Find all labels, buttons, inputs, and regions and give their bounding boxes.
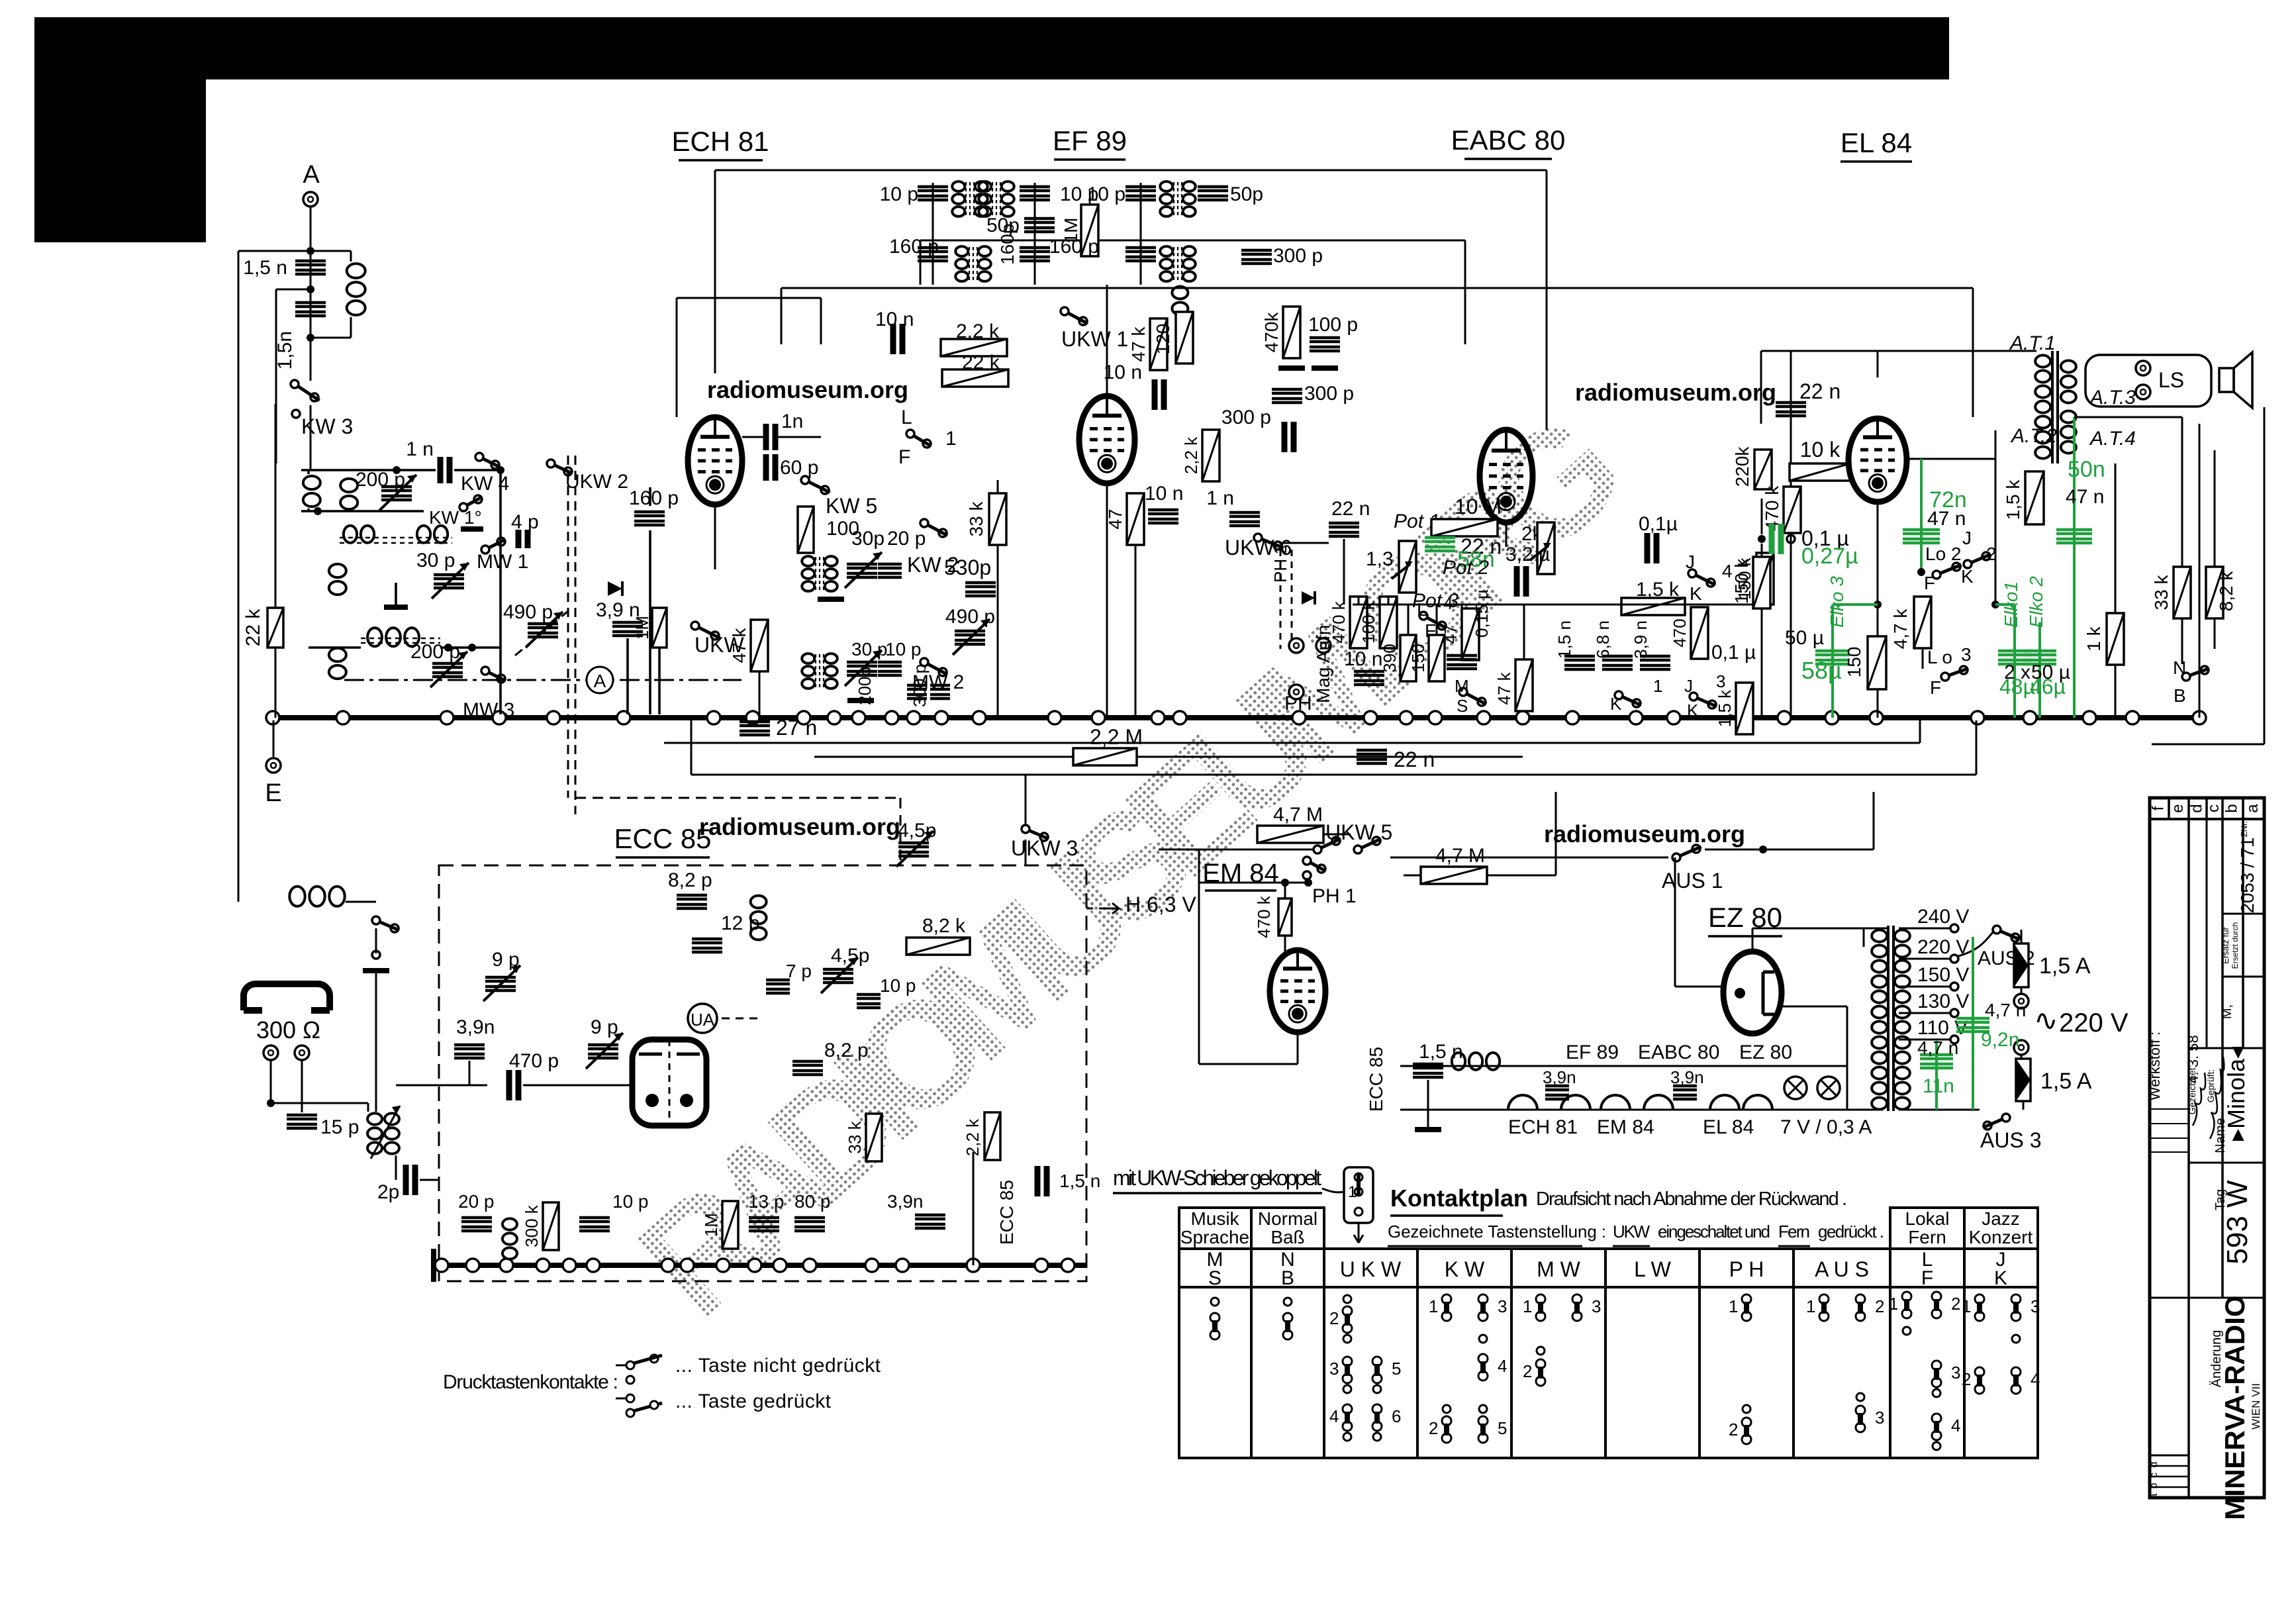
- svg-text:390: 390: [1380, 644, 1400, 672]
- wire KW4 column: [499, 470, 502, 714]
- svg-text:2: 2: [1875, 1296, 1884, 1316]
- resistor 47 eabc: [1462, 608, 1479, 660]
- wire prim top: [1864, 928, 1883, 930]
- svg-text:L o: L o: [1927, 647, 1952, 667]
- wire 47 down: [1135, 545, 1137, 718]
- svg-text:F: F: [898, 446, 910, 468]
- svg-text:1,5 k: 1,5 k: [1636, 579, 1680, 601]
- wire dashed PH2 b: [1291, 550, 1293, 649]
- title block bottom letter cells: [2150, 1455, 2189, 1457]
- svg-text:3: 3: [1592, 1296, 1601, 1316]
- svg-text:F: F: [1921, 1267, 1933, 1289]
- capacitor 0,15u: [1447, 655, 1477, 669]
- svg-text:4,5p: 4,5p: [831, 945, 869, 967]
- contact PH 1: [1742, 1294, 1751, 1304]
- ECC85 dashed box: [439, 865, 1086, 1281]
- resistor 8,2k ecc: [906, 938, 970, 955]
- junction bus: [2023, 711, 2036, 724]
- contact UKW 3: [1343, 1357, 1352, 1366]
- svg-text:ECH 81: ECH 81: [1508, 1116, 1578, 1138]
- wire ez80 top: [1752, 928, 1754, 951]
- resistor 120: [1176, 312, 1193, 363]
- svg-text:MW 3: MW 3: [463, 699, 514, 721]
- wire: [309, 646, 361, 649]
- svg-text:J: J: [1686, 552, 1695, 572]
- svg-text:radiomuseum.org: radiomuseum.org: [707, 376, 908, 403]
- svg-text:10 p: 10 p: [880, 975, 916, 996]
- wire to tube: [523, 1085, 632, 1087]
- svg-text:Draufsicht nach Abnahme der: Draufsicht nach Abnahme der Rückwand .: [1536, 1188, 1847, 1210]
- svg-text:2,2 k: 2,2 k: [963, 1118, 982, 1156]
- speaker symbol: [2219, 368, 2234, 392]
- wire 33k down: [2181, 618, 2183, 664]
- svg-text:d: d: [2148, 1462, 2160, 1468]
- contact MS: [1210, 1313, 1220, 1322]
- resistor 150: [1868, 636, 1886, 689]
- svg-text:490 p: 490 p: [945, 606, 995, 628]
- svg-text:A.T.4: A.T.4: [2089, 428, 2136, 450]
- resistor 1,5k b: [1736, 683, 1753, 734]
- svg-text:EF 89: EF 89: [1566, 1042, 1619, 1063]
- svg-text:300 k: 300 k: [522, 1204, 542, 1247]
- svg-text:K: K: [1687, 701, 1699, 720]
- wire 33k up: [997, 480, 999, 493]
- speaker LS box: [2085, 355, 2211, 407]
- svg-text:240 V: 240 V: [1917, 906, 1969, 928]
- capacitor 20p: [878, 564, 902, 577]
- svg-text:AUS 3: AUS 3: [1980, 1128, 2041, 1152]
- wire EF89 cathode down: [1106, 483, 1108, 718]
- switch J4K: [1688, 569, 1696, 577]
- wire top rail 3: [781, 287, 1973, 289]
- svg-text:S: S: [1208, 1267, 1221, 1289]
- junction bus: [1566, 711, 1579, 724]
- svg-text:b: b: [2148, 1482, 2160, 1488]
- capacitor 3,9n ecc: [454, 1045, 485, 1058]
- svg-text:300 p: 300 p: [1304, 383, 1354, 405]
- wire ez80 up: [1674, 857, 1676, 987]
- wire tap 130 V: [1899, 1012, 1950, 1014]
- line tb v2: [2221, 819, 2224, 1298]
- svg-text:4,5p: 4,5p: [898, 820, 936, 842]
- svg-text:B: B: [2174, 685, 2186, 706]
- junction bus: [2126, 711, 2139, 724]
- svg-text:2: 2: [1329, 1308, 1339, 1328]
- capacitor 1n mixer: [440, 457, 450, 483]
- svg-text:160 p: 160 p: [629, 487, 679, 509]
- capacitor 20p: [461, 1218, 492, 1231]
- svg-text:radiomuseum.org: radiomuseum.org: [1544, 820, 1745, 848]
- junction bus: [440, 711, 454, 724]
- resistor 1,5k: [1621, 598, 1685, 615]
- svg-text:1,5 k: 1,5 k: [2003, 479, 2023, 520]
- svg-text:K: K: [1690, 583, 1702, 604]
- wire ez80 right: [1782, 1006, 1847, 1008]
- svg-text:KW 5: KW 5: [826, 494, 877, 518]
- inductor MW coil b: [417, 526, 430, 543]
- svg-text:2,2 M: 2,2 M: [1090, 725, 1143, 749]
- svg-text:20 p: 20 p: [887, 528, 926, 550]
- capacitor 15p: [287, 1115, 317, 1128]
- wire ez80 right down: [1846, 1006, 1848, 1110]
- node A circle: [587, 667, 613, 693]
- junction ecc bus: [803, 1259, 816, 1272]
- svg-text:2053 / 71: 2053 / 71: [2237, 838, 2258, 914]
- contact: [1343, 1433, 1351, 1441]
- wire EABC80 top drop: [1546, 170, 1548, 430]
- capacitor 1,5n heater: [1413, 1064, 1443, 1077]
- svg-text:B: B: [1281, 1267, 1294, 1289]
- svg-text:1: 1: [1806, 1296, 1815, 1316]
- svg-text:2p: 2p: [377, 1181, 399, 1203]
- wire 47k down: [759, 671, 761, 718]
- svg-text:5: 5: [1392, 1359, 1401, 1379]
- wire ant top: [238, 250, 351, 252]
- transformer A.T. output core: [2051, 351, 2054, 463]
- wire: [310, 318, 312, 338]
- contact: [1343, 1335, 1351, 1343]
- wire mixer bottom: [301, 510, 424, 512]
- svg-text:130 V: 130 V: [1917, 991, 1969, 1012]
- junction bus: [828, 711, 841, 724]
- svg-text:U K W: U K W: [1340, 1257, 1402, 1281]
- junction ecc bus: [865, 1259, 879, 1272]
- svg-text:4. 3. 58: 4. 3. 58: [2185, 1035, 2201, 1083]
- resistor 1M ecc: [722, 1201, 738, 1249]
- junction ecc bus: [1061, 1259, 1075, 1272]
- heater EZ80: [1743, 1095, 1772, 1110]
- capacitor 10p ecc: [857, 994, 881, 1008]
- svg-text:47 n: 47 n: [2066, 486, 2104, 508]
- svg-text:ECC 85: ECC 85: [614, 823, 711, 854]
- wire rail3 drop R: [1972, 288, 1974, 417]
- wire IF1 vert: [932, 183, 934, 285]
- svg-text:1: 1: [1962, 1296, 1971, 1316]
- svg-text:Pot 2: Pot 2: [1443, 557, 1489, 579]
- wire: [350, 317, 352, 338]
- svg-text:ECH 81: ECH 81: [671, 126, 769, 157]
- switch MW 2: [920, 658, 928, 666]
- svg-text:Elko 3: Elko 3: [1827, 576, 1847, 628]
- contact AUS 1: [1819, 1294, 1829, 1304]
- wire dashed core b: [361, 638, 440, 640]
- svg-text:47: 47: [1105, 509, 1125, 529]
- svg-text:10 n: 10 n: [1344, 648, 1382, 670]
- wire Elko3 down: [1831, 605, 1834, 718]
- junction ecc bus: [748, 1259, 761, 1272]
- title block sig rows: [2150, 1108, 2189, 1110]
- svg-text:10 M: 10 M: [1455, 495, 1502, 518]
- wire: [395, 583, 397, 607]
- svg-text:A.T.2: A.T.2: [2010, 425, 2057, 447]
- wire dashed diagonal: [515, 608, 572, 655]
- resistor 22k b: [942, 369, 1008, 387]
- transformer power core: [1887, 926, 1889, 1111]
- resistor 150 eabc: [1429, 635, 1445, 681]
- switch KW 1: [459, 503, 467, 511]
- capacitor 3,9n eabc: [1640, 656, 1670, 669]
- inductor heater choke: [1452, 1053, 1465, 1070]
- svg-text:33 k: 33 k: [966, 501, 986, 537]
- svg-text:S: S: [1457, 696, 1468, 716]
- svg-text:Elko 2: Elko 2: [2026, 576, 2046, 628]
- svg-text:mit UKW-Schieber gekoppelt: mit UKW-Schieber gekoppelt: [1113, 1166, 1321, 1190]
- svg-text:30 p: 30 p: [416, 550, 455, 571]
- svg-text:ECC 85: ECC 85: [1366, 1047, 1386, 1112]
- capacitor 22n eabc: [1329, 523, 1359, 536]
- wire ukw3 b: [1025, 840, 1027, 865]
- capacitor 10p osc: [878, 662, 902, 675]
- svg-text:3: 3: [1329, 1359, 1339, 1379]
- svg-text:L: L: [1417, 599, 1427, 620]
- wire 2,2k down: [973, 1152, 975, 1265]
- svg-text:47 k: 47 k: [729, 628, 749, 663]
- wire A.T.1 drop: [1760, 351, 1762, 424]
- capacitor 470p: [509, 1070, 518, 1100]
- capacitor 0,1u top: [1647, 533, 1656, 563]
- wire: [307, 509, 310, 511]
- svg-text:A: A: [303, 161, 320, 189]
- junction bus: [617, 711, 630, 724]
- wire: [1284, 883, 1286, 898]
- tap 110 V: [1950, 1036, 1958, 1043]
- contact JK 3: [2011, 1294, 2021, 1304]
- line tb v1: [2187, 819, 2190, 1498]
- switch UKW 5: [1314, 846, 1321, 853]
- svg-text:300 p: 300 p: [1221, 407, 1271, 428]
- junction ecc bus: [587, 1259, 600, 1272]
- junction bus: [1292, 711, 1306, 724]
- svg-text:0,1µ: 0,1µ: [1639, 513, 1678, 535]
- svg-text:300 p: 300 p: [1273, 245, 1323, 267]
- wire ECH81 anode rail: [714, 170, 716, 373]
- capacitor 160p IF1b: [1020, 248, 1050, 261]
- svg-text:4,7 n: 4,7 n: [1917, 1038, 1958, 1058]
- junction ecc bus: [466, 1259, 479, 1272]
- svg-text:MW 1: MW 1: [477, 551, 528, 573]
- capacitor 1n grid: [766, 424, 775, 450]
- capacitor 50n47n: [2056, 530, 2092, 543]
- svg-text:gedrückt .: gedrückt .: [1818, 1222, 1884, 1241]
- switch UKW 6: [1254, 534, 1262, 542]
- svg-text:M W: M W: [1537, 1257, 1581, 1281]
- wire ukw6 row: [1279, 542, 1329, 544]
- wire dashed box drop: [900, 798, 902, 865]
- svg-text:4,7 M: 4,7 M: [1435, 845, 1485, 867]
- wire: [1404, 875, 1421, 877]
- line tb h1: [2223, 913, 2264, 915]
- wire left tall vertical: [238, 251, 240, 902]
- junction coil bottom: [314, 507, 322, 515]
- wire 1M down: [658, 648, 661, 714]
- wire EL84 grid right: [1907, 458, 1995, 460]
- svg-text:1: 1: [945, 428, 957, 450]
- contact: [1343, 1385, 1351, 1393]
- svg-text:4,7 M: 4,7 M: [1273, 804, 1323, 826]
- wire 4,7k down: [1922, 648, 1924, 669]
- svg-text:UKW 3: UKW 3: [1011, 836, 1078, 860]
- wire to coil: [311, 337, 351, 339]
- svg-text:P H: P H: [1729, 1257, 1764, 1281]
- resistor 100k: [1380, 597, 1397, 648]
- wire green mains b: [1935, 1041, 1938, 1110]
- resistor 220k: [1754, 450, 1772, 489]
- svg-text:200 p: 200 p: [356, 469, 405, 491]
- wire em84 left: [1198, 849, 1200, 1064]
- ground KW1: [461, 526, 483, 532]
- junction bus: [907, 711, 920, 724]
- terminal LS+: [2136, 361, 2150, 375]
- svg-text:UKW: UKW: [1613, 1222, 1650, 1241]
- transformer antenna coupling: [367, 1113, 382, 1124]
- wire 33k down: [997, 545, 999, 718]
- capacitor 50p IF: [1024, 218, 1055, 232]
- tube ECH81: [688, 417, 742, 505]
- svg-text:3,9n: 3,9n: [456, 1016, 495, 1038]
- capacitor 4p: [518, 530, 528, 548]
- wire rail2 left drop: [691, 720, 693, 775]
- potentiometer 1,3M: [1399, 541, 1416, 593]
- switch UKW 3: [1022, 825, 1029, 833]
- resistor 150k el: [1753, 557, 1770, 608]
- svg-text:2,2 k: 2,2 k: [1181, 436, 1201, 474]
- svg-text:3: 3: [2031, 1296, 2040, 1316]
- wire prim bottom: [1847, 1109, 1883, 1111]
- resistor 2,2k ef: [1202, 430, 1220, 481]
- contact KW 1: [1442, 1294, 1451, 1304]
- wire: [1487, 875, 1556, 877]
- wire: [1199, 1063, 1298, 1065]
- svg-text:22 k: 22 k: [962, 352, 1000, 373]
- svg-text:1 n: 1 n: [1206, 487, 1234, 509]
- switch Lo2 F: [1933, 571, 1940, 579]
- wire: [367, 1103, 369, 1112]
- wire left drop 2: [275, 289, 277, 463]
- fuse 1,5A a: [2014, 944, 2029, 987]
- contact: [1373, 1385, 1381, 1393]
- junction antenna: [307, 247, 314, 255]
- svg-text:1: 1: [1523, 1296, 1532, 1316]
- ground 100p: [1312, 365, 1338, 371]
- wire ECC85 bus: [439, 1263, 1086, 1268]
- antenna 300ohm symbol: [244, 984, 330, 1010]
- junction: [468, 644, 476, 652]
- line tb h2: [2223, 976, 2264, 978]
- capacitor 160p IF2: [1125, 248, 1156, 261]
- svg-text:1: 1: [1889, 1294, 1898, 1314]
- capacitor 3,9n heater b: [1673, 1086, 1697, 1099]
- switch L4F: [1419, 612, 1427, 620]
- capacitor 300p small: [930, 685, 950, 699]
- svg-text:100 k: 100 k: [1359, 601, 1378, 644]
- black top bar: [34, 17, 1949, 79]
- junction ecc bus: [661, 1259, 675, 1272]
- switch MW 1: [481, 546, 489, 554]
- capacitor 10p IF1: [918, 187, 948, 200]
- junction ecc bus: [967, 1259, 980, 1272]
- wire stub: [276, 289, 311, 291]
- svg-text:50p: 50p: [986, 215, 1020, 236]
- svg-text:220 V: 220 V: [2059, 1008, 2129, 1038]
- contact NB: [1283, 1313, 1292, 1322]
- terminal LS-: [2136, 385, 2150, 399]
- svg-text:▸Minola◂: ▸Minola◂: [2223, 1047, 2250, 1141]
- resistor 2,2k: [941, 339, 1007, 356]
- svg-text:11n: 11n: [1923, 1075, 1954, 1097]
- junction bus: [1516, 711, 1529, 724]
- svg-text:KW 4: KW 4: [461, 473, 509, 495]
- resistor 470k ef: [1283, 307, 1300, 358]
- svg-text:60 p: 60 p: [780, 457, 818, 479]
- contact: [1537, 1347, 1545, 1355]
- svg-text:a: a: [2244, 804, 2262, 813]
- wire antenna down: [310, 207, 312, 381]
- svg-text:Jazz: Jazz: [1982, 1208, 2020, 1229]
- svg-text:f: f: [2150, 806, 2168, 810]
- junction bus: [797, 711, 810, 724]
- svg-text:47 k: 47 k: [1494, 671, 1514, 704]
- svg-text:10 n: 10 n: [1104, 362, 1142, 383]
- svg-text:UA: UA: [691, 1010, 715, 1030]
- wire rail2 drop R: [1464, 240, 1466, 344]
- wire 50n green: [2073, 417, 2076, 718]
- capacitor 3,9n ecc2: [915, 1215, 945, 1228]
- wire em84 bottom: [1297, 1032, 1299, 1064]
- svg-text:2: 2: [1429, 1418, 1438, 1438]
- wire aus1 up: [1873, 792, 1875, 849]
- trimmer 4,5p a: [898, 843, 929, 856]
- junction cathode: [1874, 601, 1882, 608]
- terminal 300 b: [295, 1045, 309, 1060]
- svg-text:c: c: [2205, 804, 2223, 812]
- wire dashed UKW box L: [567, 456, 569, 798]
- junction bus: [1151, 711, 1165, 724]
- contact KW 4: [1478, 1354, 1488, 1363]
- diode on dashed line: [608, 581, 622, 596]
- line tb h4: [2189, 1162, 2264, 1164]
- junction bus: [935, 711, 948, 724]
- svg-text:8,2 k: 8,2 k: [922, 915, 966, 937]
- wire rail3 drop L: [781, 288, 783, 344]
- junction ecc bus: [681, 1259, 694, 1272]
- wire tap 240 V: [1899, 928, 1950, 930]
- table header boxes: [1179, 1208, 1251, 1249]
- IF transformer 2 lower coils: [1160, 246, 1172, 256]
- wire: [1436, 605, 1438, 635]
- wire rail1 up: [1919, 720, 1921, 743]
- wire: [270, 1060, 272, 1103]
- capacitor 1n ef: [1229, 512, 1260, 526]
- capacitor 22n bottom: [1357, 750, 1387, 763]
- svg-text:L: L: [901, 407, 912, 428]
- wire 8,2k up: [2214, 450, 2216, 567]
- wire UA dashed: [722, 1018, 761, 1020]
- contact KW3: [292, 410, 300, 418]
- tube EABC80: [1480, 430, 1533, 522]
- contact: [1856, 1393, 1864, 1401]
- wire: [1523, 605, 1525, 659]
- ground mixer: [384, 605, 408, 610]
- svg-text:Drucktastenkontakte :: Drucktastenkontakte :: [443, 1371, 618, 1393]
- wire 72n green: [1920, 459, 1923, 572]
- wire Elko1 down: [2013, 605, 2016, 718]
- capacitor 1,5n b: [295, 303, 326, 316]
- wire pointer to plunger: [1322, 1188, 1344, 1192]
- wire Pot3 row: [1353, 604, 1761, 606]
- wire Elko2 down: [2038, 622, 2041, 718]
- svg-text:Gezeichnete Tastenstellung :: Gezeichnete Tastenstellung :: [1388, 1222, 1606, 1241]
- table Kontaktplan: [1179, 1287, 2038, 1458]
